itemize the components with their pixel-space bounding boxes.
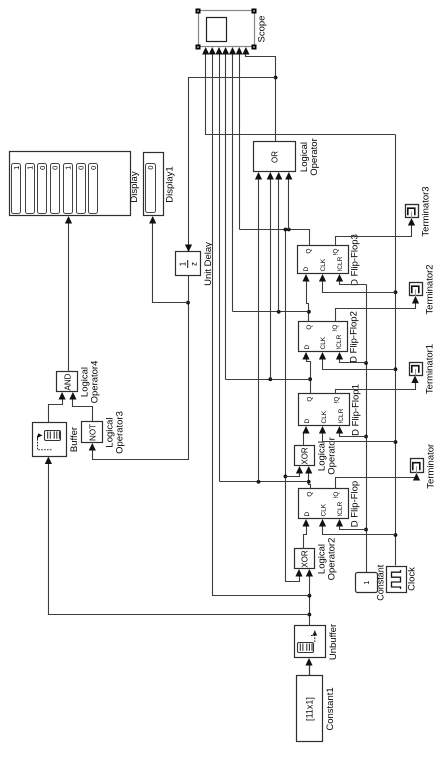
wire D Flip-Flop2 Q riser to OR input 3 and Scope port 5 [229, 47, 309, 314]
svg-text:Constant: Constant [376, 564, 386, 601]
wire D Flip-Flop notQ to Terminator [336, 473, 421, 489]
wire OR output to Scope port 7 with junctions [242, 47, 277, 142]
wire OR branch to Unit Delay input flipped [185, 78, 276, 253]
wire D Flip-Flop1 Q to D Flip-Flop2 D input with junction [302, 352, 312, 394]
svg-text:!Q: !Q [332, 325, 339, 332]
svg-text:Q: Q [306, 325, 313, 330]
wire branch to Scope port 2 [209, 47, 310, 596]
wire D Flip-Flop Q riser to OR input 1 and Scope port 3 [215, 47, 308, 484]
wire clear bus from Constant [364, 285, 368, 573]
svg-text:!Q: !Q [334, 397, 341, 404]
buffer block Buffer [33, 423, 81, 457]
wire D Flip-Flop Q to XOR input 2 with junction [305, 466, 312, 489]
svg-text:CLK: CLK [320, 258, 327, 271]
wire AND output to Display input [65, 216, 72, 372]
svg-text:D: D [303, 267, 310, 272]
wire clock feed [319, 352, 396, 370]
svg-text:CLK: CLK [321, 410, 328, 423]
svg-text:XOR: XOR [301, 447, 310, 465]
svg-text:[11x1]: [11x1] [305, 697, 315, 721]
wire XOR2 output to D Flip-Flop D input [302, 519, 309, 549]
svg-text:Display1: Display1 [165, 166, 176, 202]
wire clock feed [319, 274, 396, 293]
wire clear feed [336, 274, 367, 285]
terminator block Terminator [411, 444, 437, 489]
svg-text:Display: Display [129, 171, 140, 202]
wire D Flip-Flop3 Q riser to OR input 4 feedback and Scope port 6 [236, 47, 310, 246]
svg-text:Q: Q [306, 249, 313, 254]
svg-text:1: 1 [25, 166, 34, 170]
svg-text:D: D [304, 419, 311, 424]
svg-text:Constant1: Constant1 [325, 687, 336, 730]
or gate Logical Operator OR [254, 138, 321, 176]
wire feedback branch to XOR input 1 [286, 466, 304, 477]
wire branch to Buffer input [45, 457, 310, 615]
svg-text:Q: Q [307, 397, 314, 402]
wire Unit Delay output to NOT input with Display1 branch [89, 276, 190, 460]
wire branch to Display1 input [149, 216, 188, 303]
svg-text:D Flip-Flop1: D Flip-Flop1 [351, 384, 362, 436]
svg-text:Buffer: Buffer [69, 427, 80, 452]
d flip-flop D Flip-Flop2 [299, 311, 360, 363]
wire feedback bus to XOR2 input 1 [284, 230, 303, 582]
svg-text:z: z [190, 262, 199, 266]
svg-text:Operator: Operator [309, 138, 320, 176]
svg-text:1: 1 [64, 166, 73, 170]
svg-text:Terminator2: Terminator2 [425, 264, 436, 314]
svg-text:Clock: Clock [407, 567, 418, 591]
svg-text:OR: OR [271, 151, 280, 163]
svg-text:!Q: !Q [333, 492, 340, 499]
unit delay block Unit Delay 1/z flipped [176, 242, 215, 286]
wire clock feed [319, 426, 396, 442]
xor gate Logical Operator2 [295, 538, 338, 581]
svg-text:!CLR: !CLR [337, 501, 344, 516]
svg-text:Scope: Scope [257, 16, 268, 43]
svg-text:Terminator3: Terminator3 [421, 186, 432, 236]
scope block Scope selected with handles [196, 9, 268, 50]
svg-text:Terminator: Terminator [426, 444, 437, 489]
svg-text:!CLR: !CLR [338, 408, 345, 423]
svg-text:D Flip-Flop2: D Flip-Flop2 [349, 311, 360, 363]
wire D Flip-Flop1 Q riser to OR input 2 and Scope port 4 [222, 47, 311, 381]
wire Buffer output to AND input 1 [49, 392, 66, 423]
svg-text:D Flip-Flop: D Flip-Flop [350, 481, 361, 527]
d flip-flop D Flip-Flop1 [299, 384, 362, 436]
constant block Constant value 1 [356, 564, 386, 601]
svg-text:D Flip-Flop3: D Flip-Flop3 [350, 234, 361, 286]
unbuffer block Unbuffer [295, 624, 340, 660]
wire clear feed [336, 426, 367, 437]
xor gate Logical Operator [295, 437, 338, 475]
svg-text:D: D [304, 345, 311, 350]
terminator block Terminator1 [410, 344, 436, 394]
svg-text:0: 0 [76, 166, 85, 170]
svg-text:Terminator1: Terminator1 [425, 344, 436, 394]
wire clear feeds to !CLR inputs [336, 519, 367, 530]
terminator block Terminator2 [410, 264, 436, 314]
wire clock bus from Clock [394, 135, 398, 566]
wire D Flip-Flop3 notQ to Terminator3 [336, 218, 416, 246]
svg-text:CLK: CLK [320, 503, 327, 516]
wire D Flip-Flop1 notQ to Terminator1 [336, 376, 419, 394]
svg-text:Operator3: Operator3 [115, 411, 126, 454]
svg-text:0: 0 [50, 166, 59, 170]
wire Unbuffer output to XOR2 input 2 with junctions [306, 569, 313, 626]
wire D Flip-Flop2 notQ to Terminator2 [336, 296, 420, 322]
svg-text:XOR: XOR [301, 550, 310, 568]
wire D Flip-Flop2 Q to D Flip-Flop3 D input with junction [302, 274, 310, 322]
and gate Logical Operator4 [57, 361, 101, 404]
wire NOT output to AND input 2 [69, 392, 92, 422]
svg-text:Q: Q [306, 492, 313, 497]
svg-text:Operator4: Operator4 [90, 361, 101, 404]
constant block Constant1 [11x1] [297, 676, 337, 742]
display block Display 7 values 1 1 0 0 1 0 0 [10, 152, 141, 216]
svg-text:AND: AND [64, 373, 73, 390]
d flip-flop D Flip-Flop [299, 481, 361, 527]
svg-text:!Q: !Q [333, 249, 340, 256]
svg-text:CLK: CLK [320, 336, 327, 349]
svg-text:NOT: NOT [89, 424, 98, 441]
wire clock feeds to CLK inputs [319, 519, 396, 535]
terminator block Terminator3 [406, 186, 432, 236]
svg-text:Unbuffer: Unbuffer [328, 624, 339, 660]
wire clock bus to Scope port 1 [202, 47, 395, 135]
wire XOR output to D Flip-Flop1 D input [302, 426, 309, 446]
svg-text:0: 0 [89, 166, 98, 170]
clock block Clock [387, 567, 418, 593]
svg-text:!CLR: !CLR [336, 334, 343, 349]
svg-text:0: 0 [38, 166, 47, 170]
svg-text:Operator2: Operator2 [327, 538, 338, 581]
wire clear feed [336, 352, 367, 363]
display block Display1 value 0 [144, 153, 176, 216]
svg-text:!CLR: !CLR [337, 256, 344, 271]
svg-text:0: 0 [146, 166, 155, 170]
svg-text:1: 1 [12, 166, 21, 170]
d flip-flop D Flip-Flop3 [298, 234, 361, 286]
wire Constant1 to Unbuffer [305, 658, 312, 676]
svg-text:1: 1 [362, 581, 371, 585]
svg-text:Operator: Operator [327, 437, 338, 475]
svg-text:1: 1 [179, 261, 188, 266]
svg-text:D: D [304, 512, 311, 517]
not gate Logical Operator3 [82, 411, 126, 454]
